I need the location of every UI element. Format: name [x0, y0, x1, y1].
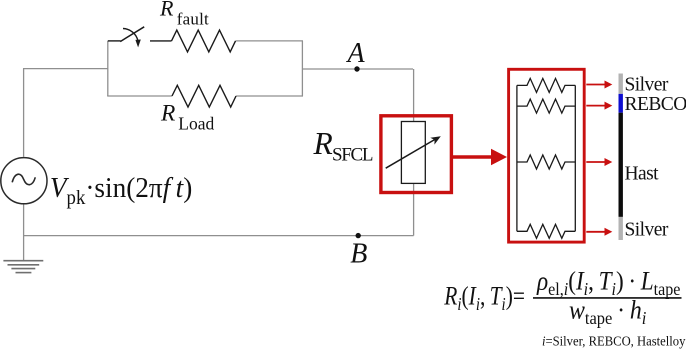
- resistor row3 (hastelloy): [517, 155, 575, 169]
- wire: top edge right segment: [236, 40, 304, 42]
- node A dot: [354, 66, 359, 71]
- tape bar silver top: [619, 74, 623, 94]
- ground: [3, 261, 43, 273]
- inner rail right: [574, 85, 576, 231]
- SFCL resistor body: [401, 122, 425, 184]
- AC source sine: [12, 174, 35, 185]
- wire: left horizontal to parallel box: [23, 68, 108, 70]
- wire: mid horizontal from box to corner: [302, 68, 413, 70]
- wire: bottom horizontal: [23, 235, 414, 237]
- svg-text:R: R: [313, 126, 333, 161]
- small red arrow 2: [586, 102, 612, 110]
- svg-text:REBCO: REBCO: [625, 94, 686, 115]
- svg-text:Hast: Hast: [625, 164, 660, 185]
- wire: right vertical through SFCL: [413, 69, 415, 236]
- switch closing arc arrow: [123, 29, 138, 41]
- switch lead right: [150, 40, 172, 42]
- svg-text:SFCL: SFCL: [332, 144, 373, 165]
- node B dot: [356, 233, 361, 238]
- tape bar silver bottom: [619, 217, 623, 240]
- wire: bottom edge left segment: [107, 95, 172, 97]
- switch blade: [120, 27, 144, 42]
- equation left side: [443, 283, 525, 315]
- svg-text:R: R: [160, 101, 175, 127]
- SFCL red box: [381, 116, 452, 193]
- svg-text:R: R: [159, 0, 174, 20]
- resistor row1 (silver): [517, 78, 575, 92]
- tape bar hastelloy: [619, 113, 623, 217]
- svg-text:Load: Load: [178, 114, 214, 134]
- tape bar REBCO: [619, 94, 623, 113]
- svg-text:A: A: [346, 38, 366, 69]
- inner rail left: [516, 85, 518, 231]
- resistor RLoad zigzag: [172, 85, 236, 107]
- note i = Silver, REBCO, Hastelloy: [542, 333, 686, 349]
- wire: left vertical from source top to mid junction: [23, 69, 25, 157]
- label Vpk sin(2pi f t): [50, 172, 192, 209]
- svg-text:i=Silver, REBCO, Hastelloy: i=Silver, REBCO, Hastelloy: [542, 333, 686, 349]
- wire: source bottom to ground: [23, 203, 25, 261]
- SFCL variable arrow: [386, 139, 437, 169]
- wire: bottom edge right segment: [236, 95, 303, 97]
- wire: parallel box right edge: [301, 41, 303, 96]
- wire: parallel box left edge: [107, 41, 109, 96]
- tape model red box: [509, 69, 585, 242]
- equation numerator: [536, 267, 680, 299]
- equation denominator: [569, 297, 647, 329]
- big red arrow: [453, 155, 491, 159]
- AC source V1 circle: [1, 158, 47, 204]
- small red arrow 4: [586, 228, 612, 236]
- switch SW lead left: [108, 40, 121, 42]
- resistor Rfault zigzag: [172, 30, 236, 52]
- svg-text:Silver: Silver: [625, 75, 669, 96]
- svg-text:Silver: Silver: [625, 219, 669, 240]
- resistor row2 (REBCO): [517, 99, 575, 113]
- small red arrow 3: [586, 158, 612, 166]
- equation fraction bar: [533, 297, 682, 299]
- svg-text:Ri(Ii, Ti)=: Ri(Ii, Ti)=: [443, 283, 525, 315]
- small red arrow 1: [586, 81, 612, 89]
- svg-text:fault: fault: [177, 9, 209, 28]
- svg-text:B: B: [350, 239, 367, 270]
- resistor row4 (silver): [517, 224, 575, 238]
